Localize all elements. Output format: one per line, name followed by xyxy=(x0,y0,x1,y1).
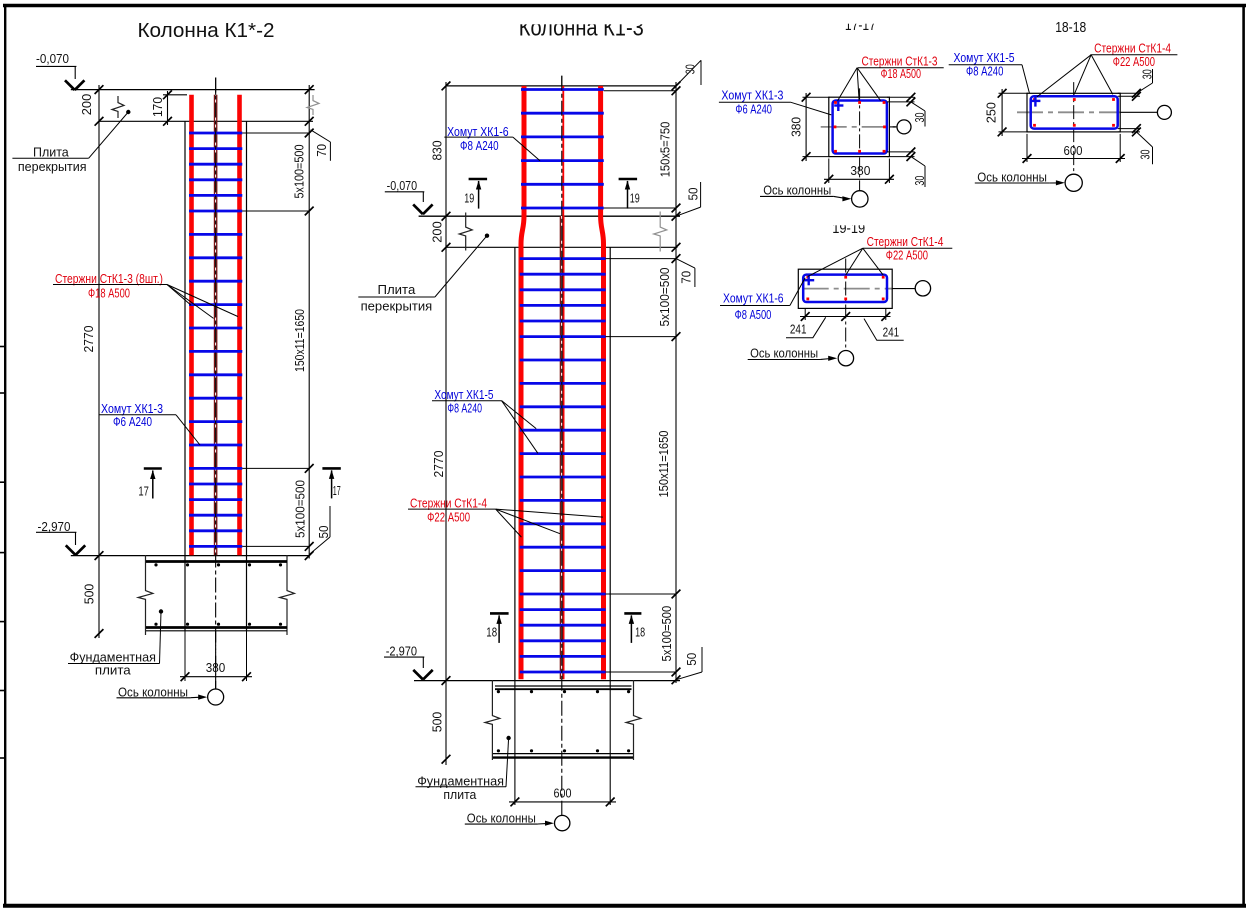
svg-text:Плита: Плита xyxy=(33,144,69,159)
svg-text:Ось колонны: Ось колонны xyxy=(750,345,818,360)
svg-text:150x11=1650: 150x11=1650 xyxy=(292,309,307,372)
svg-text:Стержни СтК1-3 (8шт.): Стержни СтК1-3 (8шт.) xyxy=(55,271,163,286)
svg-text:500: 500 xyxy=(430,712,445,733)
svg-text:плита: плита xyxy=(443,787,477,802)
svg-text:Ф18 А500: Ф18 А500 xyxy=(881,66,921,81)
svg-text:70: 70 xyxy=(314,144,329,157)
svg-text:Ф6 А240: Ф6 А240 xyxy=(735,101,772,116)
svg-text:19: 19 xyxy=(464,190,474,205)
svg-text:плита: плита xyxy=(95,662,132,677)
svg-text:Ф22 А500: Ф22 А500 xyxy=(1113,54,1155,69)
svg-text:17: 17 xyxy=(333,483,341,498)
svg-text:50: 50 xyxy=(684,653,699,666)
svg-text:500: 500 xyxy=(82,584,97,605)
svg-text:241: 241 xyxy=(883,324,900,339)
svg-text:Ф22 А500: Ф22 А500 xyxy=(886,248,928,263)
svg-text:5x100=500: 5x100=500 xyxy=(293,480,308,538)
svg-text:30: 30 xyxy=(1140,69,1155,79)
svg-text:150x11=1650: 150x11=1650 xyxy=(656,431,671,498)
svg-text:Ф8 А500: Ф8 А500 xyxy=(735,307,772,322)
svg-text:30: 30 xyxy=(682,64,697,74)
svg-text:150x5=750: 150x5=750 xyxy=(658,122,673,178)
svg-text:200: 200 xyxy=(79,94,94,116)
svg-text:Хомут ХК1-6: Хомут ХК1-6 xyxy=(723,291,784,306)
svg-text:Ф6 А240: Ф6 А240 xyxy=(113,414,152,429)
svg-text:30: 30 xyxy=(912,113,927,123)
svg-text:50: 50 xyxy=(685,188,700,201)
svg-text:перекрытия: перекрытия xyxy=(361,299,433,314)
svg-text:170: 170 xyxy=(150,97,165,117)
svg-text:перекрытия: перекрытия xyxy=(18,159,87,174)
svg-text:-0,070: -0,070 xyxy=(387,178,418,193)
svg-text:50: 50 xyxy=(316,526,331,539)
svg-text:18: 18 xyxy=(486,625,497,640)
svg-text:17: 17 xyxy=(138,484,149,499)
svg-text:30: 30 xyxy=(1138,150,1153,160)
svg-text:70: 70 xyxy=(679,271,694,284)
svg-text:19: 19 xyxy=(630,190,640,205)
svg-text:Хомут ХК1-3: Хомут ХК1-3 xyxy=(721,88,783,103)
svg-text:Ось колонны: Ось колонны xyxy=(118,684,188,699)
svg-text:241: 241 xyxy=(790,322,807,337)
svg-text:250: 250 xyxy=(984,102,999,123)
svg-text:Ось колонны: Ось колонны xyxy=(977,169,1047,184)
svg-text:-0,070: -0,070 xyxy=(36,51,69,66)
svg-text:830: 830 xyxy=(430,141,445,161)
svg-text:2770: 2770 xyxy=(431,451,446,478)
svg-text:Ф8 А240: Ф8 А240 xyxy=(447,400,482,415)
svg-text:2770: 2770 xyxy=(81,326,96,353)
svg-text:5x100=500: 5x100=500 xyxy=(659,606,674,662)
svg-text:Ф8 А240: Ф8 А240 xyxy=(966,64,1003,79)
svg-text:200: 200 xyxy=(430,221,445,243)
svg-text:18-18: 18-18 xyxy=(1055,19,1086,36)
svg-text:Ф8 А240: Ф8 А240 xyxy=(460,138,499,153)
svg-text:380: 380 xyxy=(789,117,804,137)
svg-text:18: 18 xyxy=(635,625,645,640)
svg-text:Колонна К1*-2: Колонна К1*-2 xyxy=(138,20,275,42)
svg-text:30: 30 xyxy=(912,176,927,186)
svg-text:-2,970: -2,970 xyxy=(386,644,417,659)
svg-text:Ф22 А500: Ф22 А500 xyxy=(427,510,470,525)
svg-text:Стержни СтК1-4: Стержни СтК1-4 xyxy=(410,495,487,510)
svg-text:Ось колонны: Ось колонны xyxy=(467,810,536,825)
svg-text:5x100=500: 5x100=500 xyxy=(291,145,306,199)
svg-text:600: 600 xyxy=(554,785,572,800)
svg-text:600: 600 xyxy=(1064,143,1083,158)
svg-text:5x100=500: 5x100=500 xyxy=(657,268,672,327)
svg-text:380: 380 xyxy=(850,163,870,178)
svg-text:Ф18 А500: Ф18 А500 xyxy=(88,286,130,301)
svg-text:Плита: Плита xyxy=(378,282,417,297)
svg-text:Ось колонны: Ось колонны xyxy=(763,182,831,197)
